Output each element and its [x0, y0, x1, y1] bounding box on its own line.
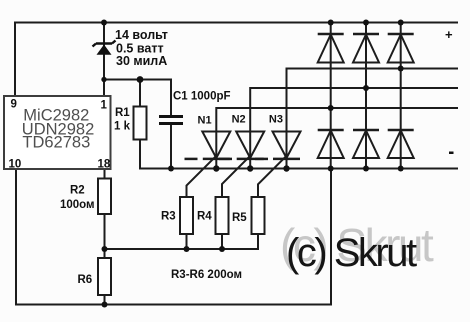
node line3 / col1: [328, 105, 334, 111]
wire R4 bottom lead: [221, 234, 223, 249]
svg-text:10: 10: [9, 159, 22, 171]
resistor R2: [98, 179, 111, 215]
wire riser from bottom return to cathode rail: [330, 169, 332, 305]
diode D5 bottom column 2: [353, 130, 379, 158]
op IC U1 MiC2982/UDN2982/TD62783 box: [4, 96, 111, 171]
node - output label: [449, 152, 454, 155]
wire top rail: [15, 22, 457, 24]
wire N3 gate diagonal to R5: [258, 156, 287, 197]
wire left upper vertical (pin 9 to top rail): [14, 23, 16, 97]
wire N1 gate diagonal to R3: [187, 156, 217, 197]
node C1 bottom: [168, 166, 174, 172]
svg-text:R6: R6: [78, 274, 93, 286]
wire R2 bottom lead: [104, 214, 106, 249]
svg-text:1 k: 1 k: [114, 121, 131, 133]
wire phase line 3 (N1): [216, 108, 457, 169]
diode D2 top column 2: [353, 34, 379, 63]
wire diode column 1: [330, 23, 332, 169]
wire phase line 2 (N2): [250, 88, 457, 169]
node line2 / col2: [363, 85, 369, 91]
resistor R6: [98, 258, 111, 295]
node rail / col3: [398, 166, 404, 172]
svg-text:R3-R6 200ом: R3-R6 200ом: [171, 269, 242, 281]
wire diode column 2: [365, 23, 367, 169]
node top rail / col2: [363, 20, 369, 26]
node line1 / col3: [398, 66, 404, 72]
diode D4 bottom column 1: [318, 130, 344, 158]
wire cathode rail: [140, 168, 457, 170]
svg-text:(c) Skrut: (c) Skrut: [286, 231, 417, 275]
svg-text:TD62783: TD62783: [22, 133, 90, 151]
svg-text:R3: R3: [161, 211, 176, 223]
wire C1 top lead: [170, 80, 172, 117]
node R3 bottom: [184, 246, 190, 252]
node junction dots: [101, 20, 404, 308]
node N1 cathode: [213, 165, 219, 171]
wire R3 bottom lead: [186, 234, 188, 249]
svg-text:R1: R1: [115, 107, 130, 119]
thyristor N2: [219, 132, 264, 159]
resistor R4: [216, 197, 229, 234]
resistor R1: [134, 107, 147, 140]
node top rail / col3: [398, 20, 404, 26]
svg-text:R2: R2: [70, 185, 85, 197]
zener diode VD1: [93, 41, 116, 55]
wire R1 top lead: [139, 80, 141, 108]
svg-text:30 милА: 30 милА: [116, 54, 167, 68]
svg-text:14 вольт: 14 вольт: [115, 28, 168, 42]
node top rail / col1: [328, 20, 334, 26]
diode D6 bottom column 3: [388, 130, 414, 158]
svg-text:1: 1: [101, 100, 108, 112]
svg-text:N1: N1: [198, 115, 212, 127]
wire gate rail R2/R6 junction to R5: [105, 248, 259, 250]
svg-text:R5: R5: [232, 212, 247, 224]
node top rail / zener: [101, 20, 107, 26]
wire zener branch vertical (top rail to pin 1): [103, 23, 105, 97]
wire branch rail to R1/C1: [104, 79, 171, 81]
resistor R5: [252, 197, 265, 234]
svg-text:N3: N3: [269, 114, 283, 126]
wire R6 top lead: [104, 249, 106, 258]
thyristor N3: [255, 132, 301, 159]
node rail / col2: [363, 166, 369, 172]
capacitor C1: [159, 117, 183, 124]
wire N2 gate diagonal to R4: [222, 156, 250, 197]
wire left lower vertical (pin 10 down): [15, 169, 17, 305]
wire R1 bottom lead: [139, 140, 141, 169]
wire R6 bottom lead: [104, 295, 106, 305]
svg-text:100ом: 100ом: [60, 199, 95, 211]
svg-text:N2: N2: [232, 114, 246, 126]
node zener / branch rail: [101, 77, 106, 82]
wire R2 top lead: [104, 169, 106, 179]
wire R5 bottom lead: [257, 234, 259, 249]
node R4 bottom: [219, 246, 225, 252]
wire diode column 3: [400, 23, 402, 169]
svg-text:R4: R4: [197, 211, 212, 223]
node R1 top: [137, 76, 144, 83]
node rail / col1: [328, 166, 334, 172]
wire C1 bottom lead: [170, 123, 172, 169]
diode D1 top column 1: [318, 34, 344, 63]
wire phase line 1 (N3): [287, 69, 458, 169]
thyristor N1: [185, 132, 231, 159]
diode D3 top column 3: [388, 34, 414, 63]
svg-text:C1 1000pF: C1 1000pF: [173, 91, 231, 103]
node N2 cathode: [247, 165, 253, 171]
resistor R3: [180, 197, 193, 234]
node N3 cathode: [283, 165, 289, 171]
node R6 bottom: [102, 302, 108, 308]
node R2/R6 junction: [102, 246, 108, 252]
svg-text:+: +: [445, 27, 453, 42]
svg-text:18: 18: [98, 159, 111, 171]
svg-text:9: 9: [11, 99, 17, 111]
wire bottom return: [16, 304, 331, 306]
